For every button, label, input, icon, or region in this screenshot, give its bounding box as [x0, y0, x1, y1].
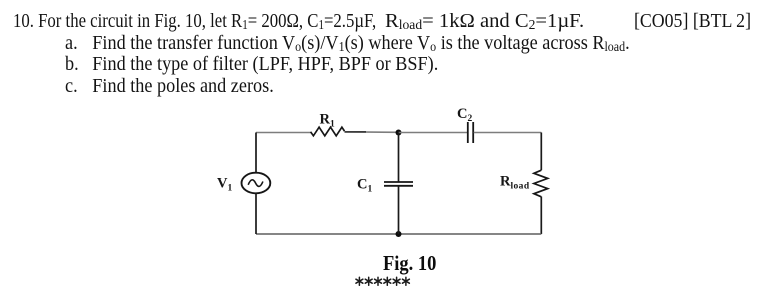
question line 1 tail	[385, 10, 584, 33]
star 4 of separator	[384, 277, 391, 285]
wire: left rail lower (V1 to bottom-left corner)	[255, 193, 257, 234]
source V1 (ac source ellipse)	[242, 173, 271, 194]
star 6 of separator	[402, 277, 409, 285]
node A (top junction dot)	[396, 130, 402, 136]
wire: top rail node A to C2	[399, 132, 468, 134]
wire: middle branch upper (node A to C1)	[398, 133, 400, 182]
item c	[65, 75, 274, 98]
wire: top rail C2 to top-right corner	[474, 132, 542, 134]
capacitor C1 (shunt, top plate)	[384, 181, 413, 183]
wire: right rail upper (corner to Rload)	[540, 133, 542, 171]
question line 1	[13, 10, 376, 33]
capacitor C2 (series, right plate)	[472, 122, 474, 143]
item a	[65, 32, 630, 55]
item b	[65, 53, 438, 76]
figure caption	[383, 251, 436, 276]
resistor R1	[311, 127, 345, 136]
svg-text:C1: C1	[357, 177, 372, 195]
wire: top rail between R1 and node A	[345, 131, 399, 134]
star 3 of separator	[375, 277, 382, 285]
capacitor C1 (shunt, bottom plate)	[384, 185, 413, 187]
svg-text:V1: V1	[217, 176, 232, 194]
star 1 of separator	[356, 277, 363, 285]
wire: middle branch lower (C1 to node B)	[398, 186, 400, 234]
star 5 of separator	[393, 277, 400, 285]
CO/BTL tags	[634, 10, 751, 33]
wire: top rail left segment (top-left corner to R1)	[256, 132, 311, 134]
svg-text:R1: R1	[320, 111, 335, 129]
svg-text:Rload: Rload	[500, 173, 530, 191]
capacitor C2 (series, left plate)	[467, 122, 469, 143]
wire: bottom rail	[256, 233, 541, 235]
node B (bottom junction dot)	[396, 231, 402, 237]
svg-text:C2: C2	[457, 106, 472, 124]
wire: left rail upper (top-left corner to V1)	[255, 133, 257, 173]
star 2 of separator	[365, 277, 372, 285]
wire: right rail lower (Rload to bottom-right corner)	[540, 197, 542, 234]
resistor Rload (vertical zigzag)	[534, 170, 548, 197]
source V1 sine symbol	[248, 180, 263, 187]
